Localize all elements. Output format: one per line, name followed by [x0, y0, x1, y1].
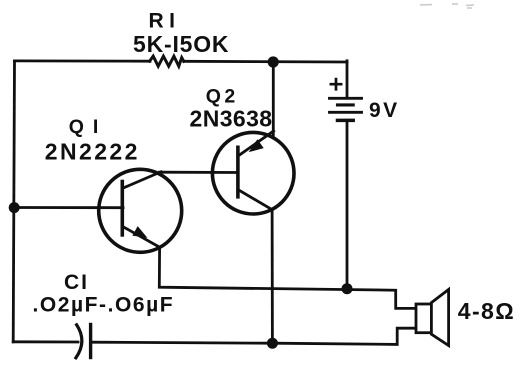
svg-text:9V: 9V	[369, 99, 400, 122]
svg-text:CI: CI	[64, 271, 89, 294]
svg-text:5K-I5OK: 5K-I5OK	[133, 31, 229, 57]
wire top rail right segment	[184, 60, 347, 64]
wire top rail left segment	[15, 60, 151, 63]
wire battery positive feed	[346, 61, 349, 98]
battery plate long top	[330, 97, 362, 100]
transistor Q1 circle	[99, 169, 182, 252]
wire Q2 collector down to bottom rail	[271, 209, 274, 343]
speaker driver rectangle	[416, 304, 432, 333]
wire bottom rail right of C1 to speaker	[92, 328, 416, 344]
battery plate short bottom	[338, 119, 354, 123]
svg-text:4-8Ω: 4-8Ω	[458, 298, 515, 324]
node junction dot bottom rail	[267, 338, 278, 349]
capacitor C1 straight plate	[89, 325, 92, 358]
transistor Q1 emitter arrow	[134, 228, 146, 237]
battery plate long lower	[330, 111, 362, 114]
wire left rail	[13, 61, 14, 342]
node junction dot battery negative	[342, 283, 353, 294]
wire Q2 emitter up to top rail	[272, 62, 275, 136]
svg-text:RI: RI	[149, 10, 181, 33]
svg-text:2N2222: 2N2222	[45, 139, 140, 165]
transistor Q1 base bar	[121, 182, 125, 235]
svg-text:2N3638: 2N3638	[190, 106, 273, 132]
node junction dot top rail	[268, 56, 279, 67]
transistor Q2 emitter arrow	[251, 141, 263, 151]
transistor Q2 circle	[212, 132, 294, 214]
wire battery negative feed	[346, 120, 349, 289]
transistor Q1 collector diagonal	[122, 172, 161, 189]
transistor Q2 base bar	[236, 147, 240, 197]
capacitor C1 curved plate	[76, 325, 82, 358]
wire bottom rail left of C1	[13, 340, 78, 343]
battery plate short upper	[338, 103, 354, 106]
node junction dot left rail	[9, 202, 20, 213]
transistor Q2 emitter diagonal	[238, 131, 274, 156]
wire Q1 base	[14, 206, 123, 209]
battery plus sign	[331, 79, 341, 89]
wire Q1 collector to Q2 base	[160, 171, 239, 174]
svg-text:.O2µF-.O6µF: .O2µF-.O6µF	[33, 294, 175, 317]
speaker cone	[431, 290, 448, 346]
resistor R1	[150, 56, 184, 66]
transistor Q1 emitter diagonal	[122, 226, 160, 247]
transistor Q2 collector diagonal	[238, 190, 272, 210]
svg-text:Q2: Q2	[206, 85, 239, 107]
scan smudge marks top edge	[420, 4, 474, 8]
wire Q1 emitter down and across	[159, 248, 416, 309]
svg-text:QI: QI	[69, 116, 108, 138]
